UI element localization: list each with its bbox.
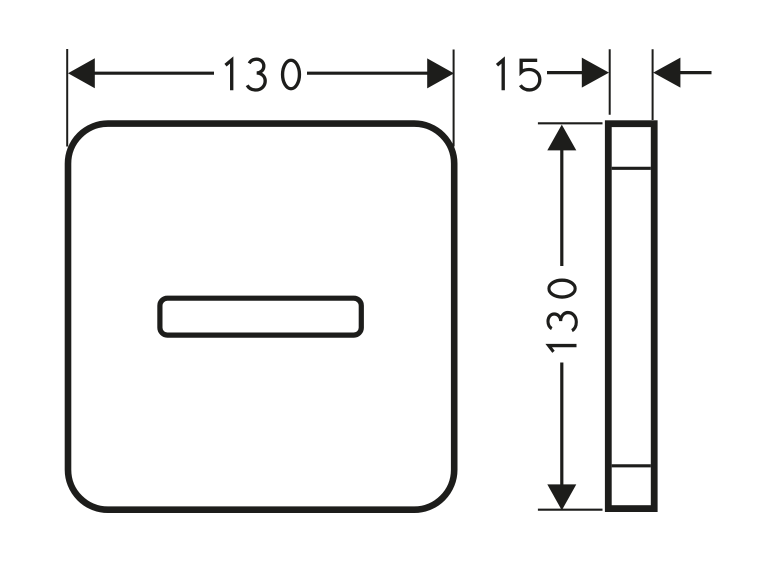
extension line right bbox=[453, 50, 455, 147]
extension line side view right bbox=[652, 49, 654, 120]
arrowhead 15 left-pointing bbox=[653, 58, 680, 88]
arrowhead down bbox=[547, 484, 576, 510]
extension line left bbox=[66, 49, 68, 147]
leader line from 15 bbox=[547, 71, 582, 74]
extension line bottom horizontal bbox=[538, 509, 603, 511]
vertical dimension line lower segment bbox=[560, 363, 563, 486]
tail line after left-pointing arrow bbox=[680, 71, 712, 74]
label 15 bbox=[497, 60, 540, 90]
slot opening bbox=[160, 298, 361, 335]
side view inner line top bbox=[612, 167, 651, 170]
dimension line 130 right segment bbox=[307, 72, 429, 75]
vertical dimension line upper segment bbox=[560, 150, 563, 267]
label 130 vertical bbox=[548, 280, 577, 352]
arrowhead up bbox=[547, 125, 576, 151]
extension line side view left bbox=[609, 49, 611, 114]
arrowhead 15 right-pointing bbox=[582, 58, 609, 88]
side view outline bbox=[608, 124, 654, 509]
arrowhead left bbox=[68, 58, 95, 88]
label 130 horizontal bbox=[226, 59, 300, 90]
dimension line 130 left segment bbox=[93, 72, 214, 75]
extension line top horizontal bbox=[538, 122, 603, 124]
front view plate outline bbox=[68, 124, 454, 510]
side view inner line bottom bbox=[612, 464, 651, 467]
arrowhead right bbox=[427, 58, 454, 88]
